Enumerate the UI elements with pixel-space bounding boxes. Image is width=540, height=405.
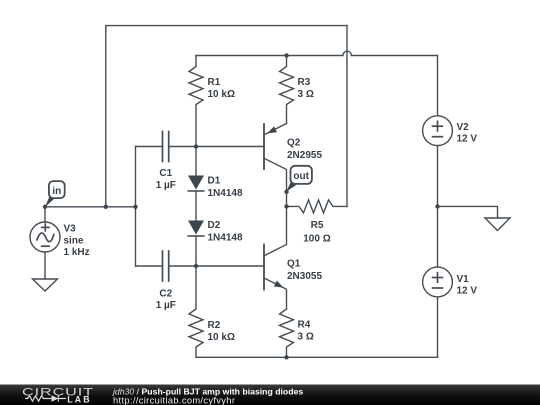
- svg-text:V1: V1: [457, 274, 470, 285]
- svg-text:12 V: 12 V: [457, 285, 478, 296]
- svg-text:10 kΩ: 10 kΩ: [208, 89, 235, 100]
- svg-text:3 Ω: 3 Ω: [298, 89, 314, 100]
- svg-text:LAB: LAB: [67, 394, 91, 404]
- svg-text:R4: R4: [298, 319, 311, 330]
- svg-text:1N4148: 1N4148: [208, 233, 243, 244]
- svg-text:V3: V3: [64, 224, 77, 235]
- svg-text:http://circuitlab.com/cyfvyhr: http://circuitlab.com/cyfvyhr: [113, 396, 235, 405]
- svg-text:in: in: [52, 186, 61, 197]
- svg-text:R5: R5: [311, 220, 324, 231]
- svg-text:12 V: 12 V: [457, 134, 478, 145]
- svg-text:1N4148: 1N4148: [208, 188, 243, 199]
- svg-text:sine: sine: [64, 235, 84, 246]
- svg-text:1 µF: 1 µF: [156, 300, 176, 311]
- svg-text:2N3055: 2N3055: [287, 271, 322, 282]
- svg-text:1 µF: 1 µF: [156, 180, 176, 191]
- svg-text:R2: R2: [208, 320, 221, 331]
- svg-text:D2: D2: [208, 220, 221, 231]
- svg-text:C1: C1: [159, 168, 172, 179]
- svg-text:V2: V2: [457, 122, 470, 133]
- svg-text:Q2: Q2: [287, 138, 301, 149]
- svg-text:2N2955: 2N2955: [287, 150, 322, 161]
- svg-text:1 kHz: 1 kHz: [64, 247, 90, 258]
- svg-text:D1: D1: [208, 176, 221, 187]
- svg-text:out: out: [293, 171, 309, 182]
- svg-text:3 Ω: 3 Ω: [298, 332, 314, 343]
- svg-text:100 Ω: 100 Ω: [303, 233, 330, 244]
- svg-text:R1: R1: [208, 77, 221, 88]
- svg-text:C2: C2: [159, 288, 172, 299]
- svg-text:10 kΩ: 10 kΩ: [208, 332, 235, 343]
- svg-text:Q1: Q1: [287, 258, 301, 269]
- svg-text:R3: R3: [298, 77, 311, 88]
